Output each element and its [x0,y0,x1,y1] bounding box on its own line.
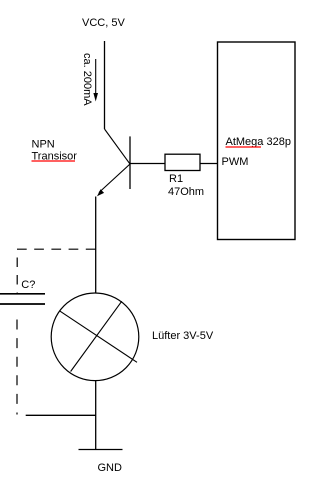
wire VCC down to transistor collector [104,41,106,129]
svg-text:PWM: PWM [222,156,249,168]
svg-text:C?: C? [21,279,35,291]
fan motor M1 (Luefter) [51,293,139,381]
ground [79,449,123,451]
label NPN Transisor [32,139,78,163]
svg-text:Lüfter 3V-5V: Lüfter 3V-5V [152,330,214,342]
dashed wire node to capacitor branch (horizontal) [17,248,96,250]
transistor Q1 NPN [97,129,130,196]
dashed wire capacitor branch upper (vertical) [16,258,18,294]
label R1 47Ohm [168,173,204,198]
wire capacitor branch to ground net (horizontal) [26,414,96,416]
capacitor C? plates [0,294,45,304]
wire emitter down to fan [95,197,97,294]
label AtMega 328p [226,136,291,148]
svg-text:VCC, 5V: VCC, 5V [82,17,125,29]
current arrow ca. 200mA [93,59,98,102]
svg-text:ca. 200mA: ca. 200mA [81,53,93,106]
wire base to R1 [130,163,165,165]
svg-text:47Ohm: 47Ohm [168,186,204,198]
wire R1 to AtMega PWM pin [200,163,218,165]
IC U1 AtMega 328p box [218,42,296,240]
resistor R1 [165,154,200,170]
svg-text:GND: GND [98,462,123,474]
dashed wire capacitor branch lower (vertical) [16,320,18,415]
svg-text:R1: R1 [169,173,183,185]
wire fan to ground [95,381,97,450]
svg-text:AtMega 328p: AtMega 328p [226,136,291,148]
svg-text:NPN: NPN [32,139,55,151]
